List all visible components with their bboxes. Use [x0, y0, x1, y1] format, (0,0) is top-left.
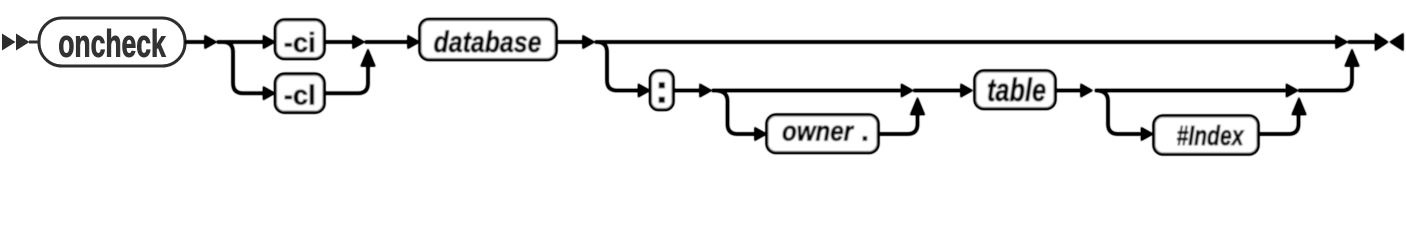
svg-text:owner: owner — [782, 116, 855, 147]
svg-text:oncheck: oncheck — [58, 24, 166, 66]
svg-text::: : — [655, 68, 668, 112]
svg-text:database: database — [434, 26, 542, 59]
svg-text:#Index: #Index — [1177, 120, 1245, 151]
svg-text:table: table — [987, 72, 1046, 108]
svg-text:-ci: -ci — [284, 27, 316, 58]
svg-text:-cl: -cl — [284, 79, 316, 110]
svg-text:.: . — [861, 116, 869, 147]
